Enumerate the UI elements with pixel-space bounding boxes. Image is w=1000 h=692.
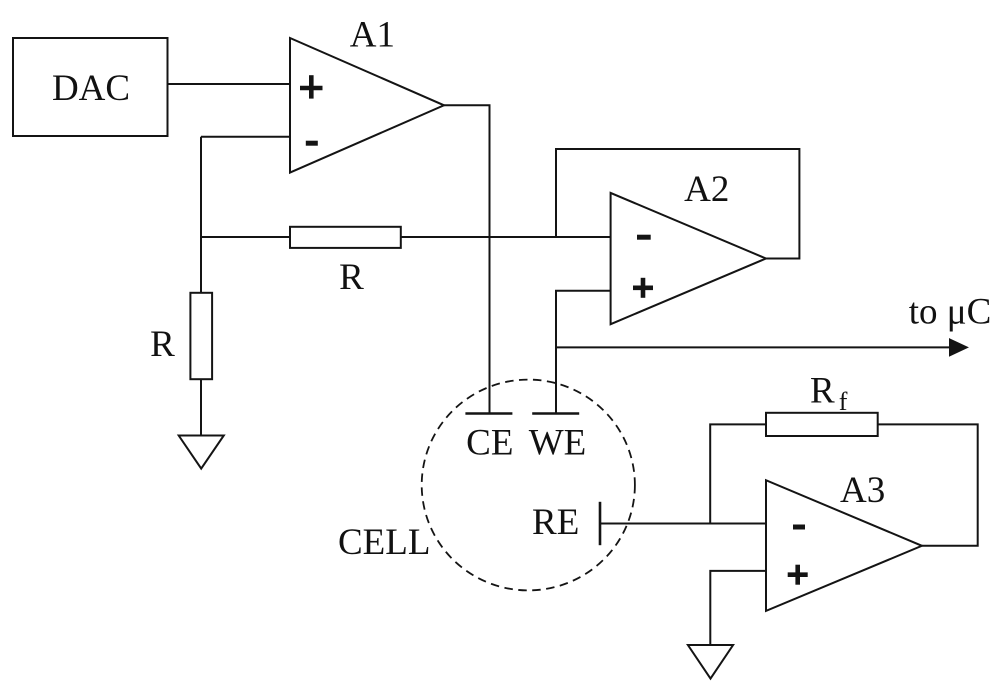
svg-text:CE: CE — [466, 423, 513, 464]
svg-text:Rf: Rf — [810, 371, 848, 417]
svg-text:CELL: CELL — [338, 522, 430, 563]
svg-text:A2: A2 — [684, 169, 729, 210]
ground (below R) — [179, 436, 224, 469]
svg-text:WE: WE — [529, 423, 587, 464]
resistor Rf — [766, 413, 878, 436]
svg-text:to μC: to μC — [909, 292, 992, 333]
svg-text:A1: A1 — [350, 15, 395, 56]
electrode WE — [532, 412, 579, 415]
ground (A3 noninverting input) — [688, 645, 733, 679]
op-amp A1 — [290, 38, 444, 173]
wire A2 feedback loop — [556, 149, 799, 259]
wire A1 inverting node vertical — [200, 137, 202, 293]
wire A2 noninverting input — [556, 291, 611, 413]
wire A1 output — [444, 105, 490, 412]
wire output to microcontroller — [556, 346, 951, 348]
svg-text:RE: RE — [532, 502, 579, 543]
svg-text:R: R — [150, 324, 175, 365]
arrowhead to microcontroller — [950, 340, 967, 356]
wire A3 noninverting input to ground — [710, 571, 766, 645]
wire A1 inverting input — [201, 136, 290, 138]
wire A3 feedback right leg — [878, 424, 978, 545]
DAC block — [13, 38, 168, 136]
op-amp A3 — [766, 480, 922, 611]
svg-text:DAC: DAC — [52, 68, 130, 109]
resistor R (feedback, horizontal) — [290, 227, 401, 248]
op-amp A2 — [611, 193, 766, 324]
svg-text:A3: A3 — [840, 470, 885, 511]
wire A3 feedback left leg — [710, 424, 766, 523]
resistor R (to ground, vertical) — [190, 293, 212, 379]
wire resistor R to ground — [200, 379, 202, 435]
wire feedback node to A2 inverting input — [201, 236, 611, 238]
cell boundary (dashed circle) — [422, 380, 635, 591]
wire DAC output to A1 noninverting input — [168, 83, 291, 85]
electrode CE — [465, 412, 512, 415]
wire RE to A3 inverting input — [600, 523, 766, 525]
svg-text:R: R — [339, 257, 364, 298]
electrode RE — [599, 502, 602, 545]
